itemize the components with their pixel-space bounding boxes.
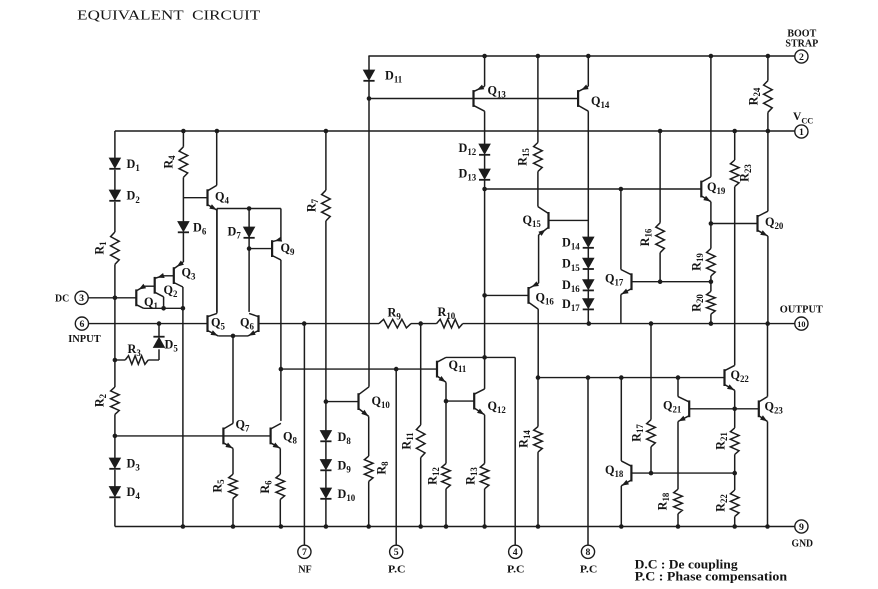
wire Q5/Q6 emitters junction: [218, 334, 248, 339]
node OUTPUT pin 10: [780, 303, 824, 330]
wire R11 to GND: [420, 458, 422, 527]
diode D1: [109, 157, 139, 173]
wire R16 to Q17 base node: [659, 253, 661, 282]
svg-text:NF: NF: [298, 565, 312, 576]
svg-text:OUTPUT: OUTPUT: [780, 303, 824, 315]
resistor R2: [93, 387, 120, 414]
wire bootstrap top rail (pin 2 net): [368, 54, 794, 59]
diode D8: [320, 430, 351, 446]
wire Q19 collector up to top rail: [710, 56, 712, 177]
svg-text:9: 9: [799, 522, 804, 533]
transistor Q2: [155, 273, 178, 308]
transistor Q6: [240, 313, 259, 336]
node DC pin 3: [55, 291, 88, 304]
wire Q7 emitter to R5: [232, 448, 234, 474]
transistor Q7: [223, 417, 250, 448]
wire Q10 base line: [326, 401, 359, 403]
wire D16-D17: [587, 291, 589, 299]
wire Q6 collector up to D7 node: [248, 249, 250, 312]
diode D12: [459, 141, 491, 157]
wire y189 down to Q16 base and y357.4 node: [482, 189, 487, 357]
wire R8 to GND: [368, 481, 370, 526]
wire INPUT pin6 to Q5 base: [89, 321, 208, 326]
wire Q19/Q20 base line: [711, 223, 758, 225]
wire Q16 emitter down to R14 node: [537, 309, 539, 378]
resistor R5: [211, 474, 238, 498]
wire pin8 vertical: [587, 378, 589, 546]
transistor Q23: [759, 397, 784, 422]
wire R7 to Q10 base node and D8: [324, 221, 329, 431]
node BOOT STRAP pin 2: [785, 29, 818, 64]
diode D3: [109, 456, 140, 472]
wire Q13 emitter to top rail: [484, 56, 486, 86]
wire DC pin3 to Q1 base: [88, 296, 136, 301]
svg-text:2: 2: [799, 52, 804, 63]
resistor R12: [426, 464, 451, 489]
wire D13 to rail y189: [484, 180, 486, 189]
diode D4: [109, 485, 140, 501]
wire D14-D15: [587, 248, 589, 258]
resistor R13: [464, 464, 489, 489]
diode D13: [459, 166, 491, 182]
resistor R9: [379, 305, 411, 328]
node NF pin 7: [298, 545, 312, 575]
wire tail down to Q7 collector: [232, 336, 234, 424]
wire R13 to GND: [484, 489, 486, 527]
transistor Q15: [523, 207, 549, 236]
wire R24 to VCC: [767, 112, 769, 131]
wire Q18 collector up to y377.6: [620, 378, 622, 461]
wire Q13/Q14 base line from D11: [367, 96, 578, 101]
wire Q1/Q2/Q3 collectors node (y308.3): [144, 306, 186, 311]
transistor Q20: [758, 211, 784, 236]
wire R16 top to VCC: [659, 131, 661, 223]
wire left column (D1-D2-R1-R2-D3-D4 string): [113, 131, 118, 527]
resistor R10: [437, 305, 463, 328]
resistor R19: [690, 249, 716, 277]
wire VCC rail (pin 1 net): [115, 129, 795, 134]
wire R12 to GND: [445, 489, 447, 527]
wire Q16 base line: [485, 294, 529, 296]
transistor Q21: [663, 397, 689, 422]
wire R17 top to output line: [650, 324, 652, 420]
node PC pin 8: [580, 545, 598, 575]
wire node to R19: [710, 224, 712, 249]
diode D2: [109, 189, 140, 205]
wire Q20 collector to VCC: [767, 131, 769, 211]
transistor Q14: [578, 85, 610, 112]
resistor R14: [517, 378, 543, 527]
wire R17 to Q18 base node: [650, 447, 652, 473]
wire Q21 collector to y377.6: [677, 378, 679, 397]
transistor Q5: [208, 313, 226, 336]
wire D7 branch: [247, 209, 272, 251]
transistor Q1: [136, 284, 158, 311]
wire R23 top to VCC: [734, 131, 736, 160]
transistor Q4: [208, 185, 230, 210]
resistor R6: [258, 474, 284, 499]
wire Q8 emitter to R6: [279, 448, 281, 474]
wire GND bottom rail (pin 9 net): [115, 524, 795, 529]
wire D10 to GND: [325, 499, 327, 526]
resistor R3: [125, 342, 148, 364]
wire Q4 collector to VCC: [216, 131, 218, 185]
resistor R15: [516, 143, 543, 172]
wire R6 to GND: [279, 499, 281, 526]
wire Q14 emitter to top rail: [587, 56, 589, 86]
diode D7: [228, 224, 255, 240]
svg-text:7: 7: [302, 547, 307, 558]
resistor R21: [714, 428, 739, 455]
wire Q21 emitter to R18: [677, 422, 679, 490]
wire Q20 emitter to output: [767, 236, 769, 324]
wire Q13 collector down to D12: [484, 111, 486, 144]
wire R4-D6 column: [183, 131, 207, 262]
transistor Q3: [174, 261, 196, 309]
transistor Q19: [701, 177, 726, 202]
wire R5 to GND: [232, 499, 234, 527]
svg-text:P.C: P.C: [507, 565, 525, 576]
wire D11 cathode down through VCC to Q10 collector: [368, 81, 370, 387]
transistor Q9: [272, 237, 295, 260]
resistor R4: [162, 147, 188, 178]
node INPUT pin 6: [68, 317, 101, 345]
transistor Q22: [725, 365, 750, 390]
resistor R20: [690, 282, 716, 324]
svg-text:GND: GND: [792, 539, 814, 550]
svg-text:P.C: P.C: [580, 565, 598, 576]
wire NF pin7 vertical: [303, 324, 305, 546]
wire Q12 emitter to R13: [484, 415, 486, 464]
wire Q17 emitter down to output line: [620, 295, 622, 324]
wire Q22 emitter to y408.8 node: [734, 390, 736, 409]
wire R7 column top: [325, 131, 327, 190]
resistor R7: [305, 190, 331, 221]
transistor Q8: [271, 423, 298, 448]
transistor Q16: [529, 281, 555, 309]
diode D10: [320, 487, 355, 503]
svg-text:1: 1: [799, 127, 804, 138]
wire R15 to Q15 collector: [537, 172, 539, 207]
wire D8-D9: [325, 442, 327, 460]
node PC pin 4: [507, 545, 525, 575]
svg-text:6: 6: [79, 319, 84, 330]
svg-text:STRAP: STRAP: [785, 38, 818, 49]
svg-text:P.C: P.C: [388, 565, 406, 576]
svg-text:4: 4: [513, 547, 518, 558]
wire R15 top: [537, 56, 539, 143]
wire D15-D16: [587, 270, 589, 280]
svg-text:3: 3: [79, 293, 84, 304]
wire Q15 emitter down to Q16: [538, 235, 540, 283]
diode D6: [178, 220, 207, 236]
wire R11 column: [420, 324, 422, 425]
resistor R18: [656, 489, 683, 514]
resistor R1: [93, 232, 120, 264]
wire pin5 vertical: [395, 369, 397, 545]
resistor R16: [638, 223, 664, 253]
resistor R24: [747, 81, 773, 113]
wire D17 to output line: [587, 310, 589, 324]
resistor R11: [400, 425, 425, 458]
wire R18 to GND: [677, 514, 679, 527]
wire Q18 emitter to GND: [620, 486, 622, 527]
wire node Q16 emitter / R14 / pin8 / Q18,Q21 collectors to Q22 base (y377.6): [536, 375, 725, 380]
wire Q5 collector up: [216, 209, 218, 314]
wire R19-R20 node: [710, 276, 712, 282]
wire Q23 collector to output: [767, 324, 769, 397]
wire Q4 emitter down to Q5 collector: [216, 209, 218, 312]
transistor Q12: [474, 389, 506, 415]
wire Q18 base / R17 / R21-R22 node (y473.1): [631, 471, 737, 476]
wire Q17 collector up to y189 rail: [620, 189, 622, 270]
svg-text:DC: DC: [55, 294, 69, 305]
wire Q11 emitter to Q12 base / R12: [444, 382, 475, 463]
wire Q17 base line to R19/R20 node: [632, 279, 714, 284]
wire Q19 emitter to node y223.5: [709, 202, 714, 226]
wire Q9 emitter up to Q4 emitter line: [280, 209, 282, 240]
svg-text:10: 10: [797, 320, 805, 329]
transistor Q18: [605, 461, 631, 486]
wire R3/D5 branch: [115, 324, 159, 360]
wire Q9 collector down to y369 / Q8 collector: [280, 260, 282, 421]
wire Q21/Q23 base line (y408.8): [689, 407, 759, 412]
diode D9: [320, 458, 351, 474]
svg-text:EQUIVALENT CIRCUIT: EQUIVALENT CIRCUIT: [77, 9, 261, 24]
diode D15: [562, 257, 594, 273]
svg-text:INPUT: INPUT: [68, 334, 101, 345]
transistor Q17: [605, 270, 632, 295]
wire Q23 emitter to GND: [767, 422, 769, 527]
node GND pin 9: [792, 520, 814, 550]
wire Q4 emitter node to Q9 (y208.5): [217, 206, 281, 211]
diode D11: [363, 56, 402, 85]
wire Q7/Q8 base line: [115, 435, 271, 437]
node PC pin 5: [388, 545, 406, 575]
node VCC pin 1: [793, 111, 813, 138]
svg-text:5: 5: [394, 547, 399, 558]
resistor R8: [364, 456, 390, 481]
resistor R22: [714, 473, 739, 526]
diode D14: [562, 235, 594, 251]
transistor Q11: [437, 357, 466, 382]
svg-text:P.C : Phase compensation: P.C : Phase compensation: [635, 570, 788, 584]
wire output line: Q6 base / R9 / R10 / OUTPUT pin 10: [259, 321, 795, 326]
transistor Q10: [359, 387, 391, 417]
resistor R17: [630, 420, 656, 447]
diode D17: [562, 297, 594, 313]
wire Q15 base line to D14 chain: [549, 219, 589, 221]
wire Q10 emitter to R8: [368, 416, 370, 456]
wire node Q8/Q9 collectors to Q11 base (y369): [279, 367, 437, 372]
diode D16: [562, 278, 594, 294]
diode D5: [153, 337, 178, 354]
wire Q11 collector node to pin4 (y357.4): [446, 355, 515, 360]
svg-text:8: 8: [586, 547, 591, 558]
wire Q12 collector up to y357.4: [484, 357, 486, 389]
wire R23 down to Q22 collector: [734, 187, 736, 366]
wire Q3 collector down to GND rail: [182, 308, 184, 526]
wire node to R21: [734, 409, 736, 428]
wire D12-D13: [484, 155, 486, 169]
wire R21 to y473 node: [734, 455, 736, 474]
wire Q14 collector down to D14 chain: [587, 111, 589, 237]
wire pin4 vertical: [514, 357, 516, 545]
transistor Q13: [474, 83, 507, 111]
wire bias rail y189 (D13 cathode to Q19 base): [482, 187, 701, 192]
legend abbreviations: [635, 558, 788, 584]
resistor R23: [730, 160, 753, 187]
wire R24 top: [767, 56, 769, 81]
wire D9-D10: [325, 471, 327, 488]
